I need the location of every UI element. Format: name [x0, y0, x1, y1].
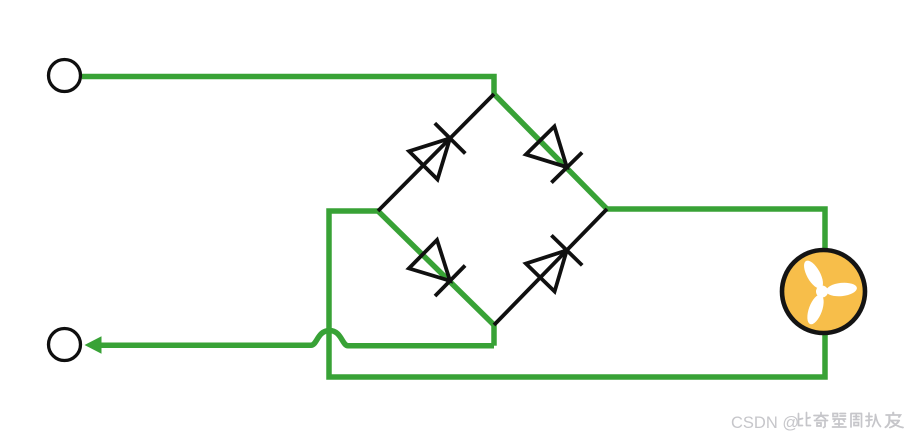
svg-text:CSDN @: CSDN @: [731, 414, 799, 432]
glyph 周: [851, 414, 862, 428]
terminal J2 (bottom-left output): [49, 329, 81, 361]
glyph 奇: [814, 413, 828, 428]
wire: right corner to load (top side): [605, 209, 825, 251]
arrowhead at terminal J2: [85, 336, 102, 353]
wire: bridge left corner to bottom corner (green diagonal, conducting): [378, 211, 494, 325]
glyph 皮: [886, 413, 903, 428]
watermark: CSDN @比奇堡周扒皮: [731, 413, 903, 433]
wire: bridge bottom corner to right corner (black diagonal arm): [494, 209, 607, 325]
diode D2 (bridge upper-right arm, anode top corner, cathode right corner): [526, 126, 582, 182]
wire: top rail from terminal J1 to bridge top corner: [82, 77, 494, 96]
wire: load bottom, bottom rail, left rail up to bridge left corner: [329, 211, 825, 377]
diode D4 (bridge lower-right arm, anode bottom corner, cathode right corner): [526, 235, 582, 291]
diode D3 (bridge lower-left arm, anode left corner, cathode bottom corner): [409, 240, 465, 296]
glyph 堡: [833, 414, 847, 428]
glyph 扒: [866, 413, 881, 427]
glyph 比: [799, 413, 811, 426]
diode D1 (bridge upper-left arm, anode left corner, cathode top corner): [409, 123, 465, 179]
wire: bridge bottom corner down to return line: [491, 323, 497, 346]
wire: bridge top corner to right corner (green diagonal, conducting): [494, 94, 607, 209]
wire: return line with hop over left rail, to output arrow: [98, 331, 494, 346]
terminal J1 (top-left input): [49, 60, 81, 92]
load M1: fan / motor (orange circle with white propeller): [782, 250, 865, 333]
wire: bridge left corner to top corner (black diagonal arm): [378, 94, 494, 211]
